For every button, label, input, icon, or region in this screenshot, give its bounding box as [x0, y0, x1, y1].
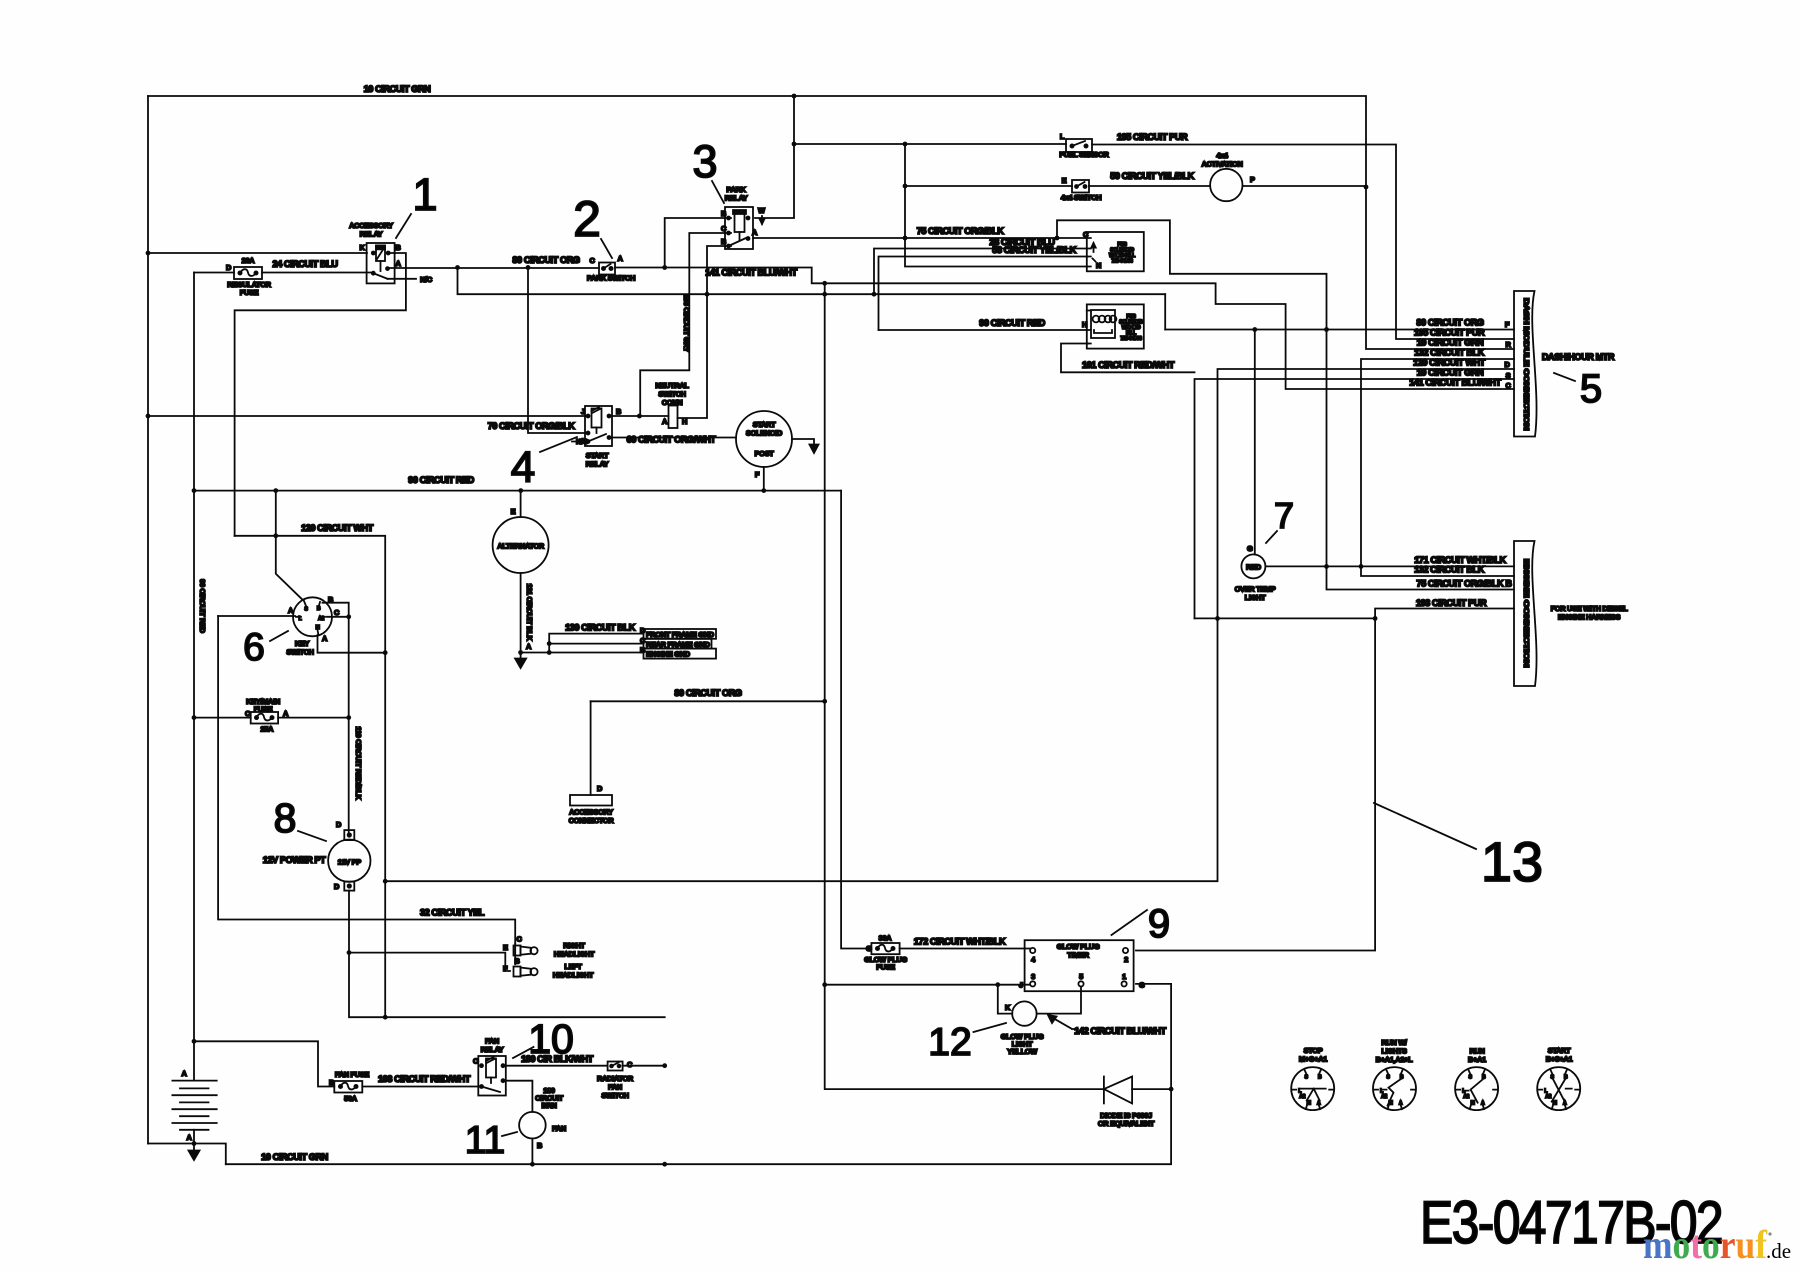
svg-text:60 CIRCUIT ORG/WHT: 60 CIRCUIT ORG/WHT	[627, 435, 717, 445]
wire 90 CIRCUIT RED into fuel solenoid 2	[879, 329, 1088, 331]
svg-text:N/C: N/C	[576, 437, 589, 446]
svg-text:11: 11	[465, 1119, 506, 1162]
fuel solenoid 2 box	[1087, 304, 1144, 348]
svg-text:S: S	[1305, 1075, 1309, 1081]
wire 132 CIRCUIT BLK dash to engine link	[1361, 359, 1514, 576]
svg-text:L: L	[299, 616, 302, 622]
ground boxes FRONT/REAR/ENGINE	[644, 629, 717, 659]
battery symbol	[172, 1081, 216, 1130]
left headlight bulb	[514, 967, 538, 977]
fuel solenoid 1 tiny text	[1083, 230, 1135, 270]
svg-text:A: A	[181, 1069, 187, 1078]
svg-text:80 CIRCUIT ORG: 80 CIRCUIT ORG	[1416, 318, 1484, 328]
key position RUN W/LIGHTS circle	[1373, 1067, 1416, 1110]
labels regulator fuse	[227, 256, 271, 297]
svg-text:132 CIRCUIT BLK: 132 CIRCUIT BLK	[1414, 565, 1485, 575]
svg-text:131 CIRCUIT BLK: 131 CIRCUIT BLK	[525, 583, 534, 641]
svg-text:ENGINE CONNECTION: ENGINE CONNECTION	[1522, 559, 1531, 667]
junction 75 row at x905 and x1057	[903, 236, 1060, 241]
svg-text:90 CIRCUIT RED: 90 CIRCUIT RED	[198, 579, 207, 634]
labels radiator fan switch	[597, 1060, 634, 1100]
junction 294 row	[455, 265, 876, 297]
wire diode row	[825, 985, 1171, 1089]
svg-text:N: N	[1096, 261, 1101, 270]
junction 4x4 row at x905	[903, 184, 908, 189]
labels glow plug timer	[1019, 942, 1145, 990]
labels accessory connector	[569, 784, 615, 825]
labels over temp light	[1235, 544, 1276, 602]
wire 70 CIRCUIT ORG/BLK	[528, 268, 585, 434]
svg-text:C: C	[589, 256, 595, 265]
key position STOP circle	[1291, 1067, 1334, 1110]
svg-text:D: D	[334, 882, 340, 891]
junction 141 net	[662, 265, 827, 286]
over temp light circle	[1241, 554, 1265, 578]
svg-text:B+A1: B+A1	[1468, 1055, 1486, 1064]
wire park relay B top to 80 ORG row	[665, 218, 731, 268]
svg-text:80 CIRCUIT ORG: 80 CIRCUIT ORG	[674, 688, 742, 698]
svg-text:132 CIRCUIT BLK: 132 CIRCUIT BLK	[1414, 348, 1485, 358]
svg-text:ALTERNATOR: ALTERNATOR	[497, 542, 545, 551]
label N/C accessory	[420, 275, 433, 284]
labels ground boxes	[640, 626, 715, 659]
wire 4x4 activation P to 10GRN vertical	[1243, 185, 1367, 187]
label dash module connection	[1522, 298, 1531, 430]
wire key switch L row	[218, 615, 295, 617]
wire 195 CIRCUIT PUR fuel sensor row	[794, 144, 1514, 339]
svg-text:B: B	[395, 243, 400, 252]
svg-text:725-04903: 725-04903	[1120, 336, 1142, 342]
numeral 11 callout	[465, 1119, 517, 1162]
junction top bus at park relay W drop	[792, 94, 797, 99]
svg-text:141 CIRCUIT BLU/WHT: 141 CIRCUIT BLU/WHT	[705, 268, 797, 278]
svg-text:SWITCH: SWITCH	[601, 1091, 628, 1100]
svg-text:C: C	[721, 224, 727, 233]
wire 10 CIRCUIT GRN bottom	[226, 1163, 1171, 1165]
numeral 13 callout	[1374, 803, 1543, 893]
12V power point	[328, 830, 370, 891]
svg-text:P: P	[1250, 175, 1255, 184]
label 75 CIRCUIT ORG/BLK B engine	[1416, 579, 1512, 589]
right headlight bulb	[514, 946, 538, 956]
svg-text:G: G	[866, 944, 872, 953]
wire key switch S feed	[276, 491, 303, 600]
wire 80 CIRCUIT ORG dash F row	[1165, 329, 1514, 331]
svg-text:725-04903: 725-04903	[1111, 259, 1133, 265]
svg-text:ENGINE GND: ENGINE GND	[646, 650, 691, 659]
label engine connection	[1522, 559, 1531, 667]
numeral 7 callout	[1266, 495, 1294, 543]
svg-text:171 CIRCUIT WHT/BLK: 171 CIRCUIT WHT/BLK	[1414, 555, 1506, 565]
wire regulator fuse left bus x194	[193, 273, 195, 1081]
drawing number E3-04717B-02	[1420, 1189, 1722, 1256]
svg-text:12V POWER PT: 12V POWER PT	[263, 855, 326, 865]
svg-text:4x4 SWITCH: 4x4 SWITCH	[1061, 193, 1102, 202]
fuel solenoid 2 tiny text	[1082, 314, 1144, 342]
labels battery pins	[181, 1069, 192, 1142]
svg-text:141 CIRCUIT BLU/WHT: 141 CIRCUIT BLU/WHT	[1409, 378, 1501, 388]
numeral 12 callout	[928, 1021, 1006, 1064]
wire accessory connector drop	[590, 701, 592, 795]
labels glow plug fuse	[864, 934, 907, 972]
label 132 CIRCUIT BLK engine	[1414, 565, 1485, 575]
svg-text:.de: .de	[1766, 1239, 1791, 1263]
glow plug fuse symbol	[871, 943, 899, 954]
wire 10 CIRCUIT GRN top bus	[148, 96, 1514, 349]
svg-text:1: 1	[412, 169, 437, 220]
svg-text:G: G	[1247, 544, 1253, 553]
wire 75 CIRCUIT ORG/BLK row	[753, 237, 1087, 239]
key/main fuse symbol	[251, 712, 278, 724]
svg-text:9: 9	[1148, 902, 1170, 946]
wire alternator E pin	[520, 491, 522, 517]
svg-text:12V PP: 12V PP	[338, 858, 362, 867]
svg-text:B: B	[721, 237, 726, 246]
svg-text:70 CIRCUIT ORG/BLK: 70 CIRCUIT ORG/BLK	[488, 421, 576, 431]
wire over temp light G to F row	[1254, 330, 1256, 555]
svg-text:75 CIRCUIT ORG/BLK B: 75 CIRCUIT ORG/BLK B	[1416, 579, 1512, 589]
svg-text:193 CIRCUIT PUR: 193 CIRCUIT PUR	[1416, 598, 1487, 608]
labels key switch name	[286, 639, 313, 657]
svg-text:FRONT FRAME GND: FRONT FRAME GND	[646, 630, 715, 639]
label 90 CIRCUIT RED	[408, 475, 474, 485]
svg-text:H: H	[1082, 320, 1087, 329]
svg-text:101 CIRCUIT RED/WHT: 101 CIRCUIT RED/WHT	[1082, 360, 1175, 370]
junction 110 net at key fuse	[346, 715, 351, 720]
svg-text:4: 4	[1031, 955, 1036, 964]
wire key main fuse row	[194, 717, 349, 719]
svg-text:A: A	[1399, 1101, 1403, 1107]
svg-text:FAN FUSE: FAN FUSE	[335, 1070, 370, 1079]
wire start relay N/C stub	[572, 441, 588, 443]
labels 12V power point	[263, 820, 362, 891]
svg-text:110 CIRCUIT RED/BLK: 110 CIRCUIT RED/BLK	[354, 726, 363, 800]
wire 108 CIRCUIT RED/WHT	[362, 1086, 481, 1088]
label 4x4 SWITCH and pin E	[1061, 176, 1102, 202]
wire accessory relay B to 120 WHT net	[235, 253, 406, 536]
junction x707 at y294	[705, 292, 710, 297]
svg-text:E: E	[511, 507, 516, 516]
svg-text:S: S	[1506, 371, 1511, 380]
svg-text:B: B	[1318, 1075, 1322, 1081]
park switch symbol	[599, 263, 615, 275]
svg-text:108 CIRCUIT RED/WHT: 108 CIRCUIT RED/WHT	[378, 1074, 471, 1084]
svg-text:2: 2	[1124, 955, 1128, 964]
142 callout arrow	[1048, 1015, 1078, 1029]
numeral 10 callout	[513, 1016, 574, 1062]
label A alternator gnd	[526, 642, 532, 651]
wire 155 CIRCUIT GRY park relay C down	[640, 233, 731, 416]
glow plug light circle	[1012, 1001, 1036, 1025]
labels park relay	[721, 185, 765, 246]
wire accessory relay N/C stub	[388, 278, 417, 280]
junction 10 GRN / 4x4 P wire	[1364, 185, 1369, 190]
wire key switch B C to 110 node	[323, 603, 349, 617]
labels key RUN	[1468, 1047, 1486, 1065]
junction 12V PP gnd net	[347, 950, 388, 1019]
svg-text:180 CIR BLK/WHT: 180 CIR BLK/WHT	[521, 1054, 594, 1064]
svg-text:POST: POST	[755, 449, 775, 458]
label 130 CIRCUIT BLK	[565, 623, 636, 633]
labels key START	[1546, 1046, 1573, 1064]
labels headlights	[503, 935, 595, 980]
wire headlight feed bracket	[349, 944, 515, 971]
svg-text:B+A1,A2+L: B+A1,A2+L	[1376, 1055, 1414, 1064]
junction fuel sensor row at x905	[792, 142, 908, 147]
start solenoid output arrow	[792, 439, 819, 453]
label DASH/HOUR MTR	[1542, 352, 1615, 362]
alternator circle	[493, 517, 549, 573]
junction key switch node	[346, 614, 351, 619]
svg-text:58 CIRCUIT YEL/BLK: 58 CIRCUIT YEL/BLK	[992, 245, 1076, 255]
junction 75 link at F row	[1324, 327, 1329, 332]
svg-text:R: R	[1505, 340, 1511, 349]
park relay W arrow	[760, 216, 765, 224]
svg-text:B: B	[640, 646, 645, 655]
label 10 CIRCUIT GRN bottom	[261, 1152, 329, 1162]
svg-text:25A: 25A	[260, 725, 274, 734]
svg-text:M: M	[1471, 1101, 1475, 1107]
svg-text:HEADLIGHT: HEADLIGHT	[554, 950, 595, 959]
labels neutral switch conn	[655, 381, 689, 426]
label 90 CIRCUIT RED vertical	[198, 579, 207, 634]
svg-text:M: M	[1553, 1101, 1557, 1107]
svg-text:10 CIRCUIT GRN: 10 CIRCUIT GRN	[1417, 368, 1485, 378]
fan fuse symbol	[334, 1081, 362, 1093]
svg-text:YELLOW: YELLOW	[1007, 1047, 1037, 1056]
wire 50 CIRCUIT YEL/BLK 4x4 switch row	[905, 185, 1210, 187]
svg-text:LIGHT: LIGHT	[1245, 593, 1266, 602]
labels park switch	[587, 254, 635, 283]
svg-text:TIMER: TIMER	[1067, 951, 1089, 960]
svg-text:90 CIRCUIT RED: 90 CIRCUIT RED	[408, 475, 474, 485]
svg-text:10 CIRCUIT GRN: 10 CIRCUIT GRN	[364, 84, 432, 94]
svg-text:13: 13	[1481, 830, 1543, 893]
wire 141 CIRCUIT BLU/WHT net	[615, 268, 1514, 390]
svg-text:50A: 50A	[344, 1094, 358, 1103]
svg-text:FUSE: FUSE	[876, 963, 895, 972]
label 141 CIRCUIT BLU/WHT	[705, 268, 797, 278]
label 108 CIRCUIT RED/WHT	[378, 1074, 471, 1084]
wire accessory relay K feed	[148, 252, 367, 254]
svg-text:CONNECTOR: CONNECTOR	[569, 816, 615, 825]
fan relay box	[478, 1056, 506, 1096]
label 60 CIRCUIT ORG/WHT	[627, 435, 717, 445]
wire glow timer J row	[825, 984, 1030, 986]
label 80 CIRCUIT ORG left	[512, 255, 580, 265]
label 50 CIRCUIT YEL/BLK	[1110, 171, 1194, 181]
svg-text:D: D	[226, 263, 232, 272]
svg-text:8: 8	[274, 795, 297, 841]
label 131 CIRCUIT BLK vertical	[525, 583, 534, 641]
diode symbol	[1104, 1077, 1132, 1104]
key position START circle	[1537, 1067, 1580, 1110]
wire 193 CIRCUIT PUR row	[1195, 609, 1515, 619]
labels fan fuse	[329, 1070, 369, 1103]
junction 80 ORG mid	[822, 699, 827, 704]
svg-text:D: D	[597, 784, 603, 793]
svg-text:B: B	[616, 407, 621, 416]
svg-text:2: 2	[573, 191, 601, 247]
wire fan relay to fan	[506, 1081, 533, 1112]
wire 58 CIRCUIT YEL/BLK row	[879, 257, 1088, 331]
wire 60 CIRCUIT ORG/WHT	[612, 437, 736, 439]
wire 12V PP top feed	[348, 830, 350, 833]
label 28 CIRCUIT BLU	[989, 237, 1055, 247]
ground arrow battery	[189, 1144, 200, 1161]
numeral 3 callout	[692, 136, 724, 203]
svg-text:S: S	[1469, 1075, 1473, 1081]
svg-text:SWITCH: SWITCH	[286, 648, 313, 657]
svg-text:REAR FRAME GND: REAR FRAME GND	[646, 640, 711, 649]
wire 101 CIRCUIT RED/WHT	[1061, 344, 1195, 373]
wire 110 CIRCUIT RED/BLK	[348, 617, 350, 830]
label 10 CIRCUIT GRN top	[364, 84, 432, 94]
svg-text:120 CIRCUIT WHT: 120 CIRCUIT WHT	[1413, 358, 1486, 368]
wire key switch M to 120 net	[318, 635, 386, 653]
regulator fuse symbol	[234, 267, 262, 279]
svg-text:1: 1	[1122, 972, 1126, 981]
wire 142 CIRCUIT BLU/WHT	[1037, 987, 1081, 1014]
labels fan	[537, 1124, 566, 1150]
label 120 CIRCUIT WHT	[301, 523, 374, 533]
neutral switch connector	[669, 406, 678, 429]
label 172 CIRCUIT WHT/BLK	[914, 937, 1006, 947]
svg-text:FUSE: FUSE	[254, 705, 273, 714]
svg-text:90 CIRCUIT RED: 90 CIRCUIT RED	[979, 318, 1045, 328]
svg-text:CONN: CONN	[662, 398, 683, 407]
label 101 CIRCUIT RED/WHT	[1082, 360, 1175, 370]
numeral 4 callout	[511, 437, 577, 492]
svg-text:B: B	[329, 1078, 334, 1087]
junction 90 RED row	[273, 488, 766, 493]
wire battery neg to 10 GRN bottom	[148, 1144, 226, 1165]
svg-text:A: A	[395, 259, 401, 268]
labels accessory relay	[349, 221, 401, 268]
numeral 1 callout	[396, 169, 438, 238]
wire 32 CIRCUIT YEL	[218, 616, 515, 944]
svg-text:L: L	[1060, 132, 1065, 141]
start solenoid post circle	[736, 411, 792, 467]
junction x194 bus	[192, 488, 197, 1044]
wire glow timer pin2 to 193 net	[1136, 618, 1375, 950]
wire glow plug light K drop	[998, 985, 1012, 1014]
svg-text:4: 4	[511, 443, 535, 492]
svg-text:A: A	[662, 417, 668, 426]
svg-text:C: C	[334, 608, 340, 617]
label 171 CIRCUIT WHT/BLK	[1414, 555, 1506, 565]
label 80 CIRCUIT ORG mid	[674, 688, 742, 698]
wire 294 row	[458, 268, 1166, 295]
svg-text:PARK SWITCH: PARK SWITCH	[587, 274, 635, 283]
svg-text:172 CIRCUIT WHT/BLK: 172 CIRCUIT WHT/BLK	[914, 937, 1006, 947]
svg-text:195 CIRCUIT PUR: 195 CIRCUIT PUR	[1117, 132, 1188, 142]
numeral 6 callout	[243, 626, 288, 669]
wire fan B to ground	[531, 1139, 533, 1165]
svg-text:3: 3	[1031, 972, 1035, 981]
svg-text:H: H	[682, 417, 687, 426]
wire 10 CIRCUIT GRN dash S row	[1195, 379, 1515, 618]
label 70 CIRCUIT ORG/BLK	[488, 421, 576, 431]
wire battery to fan fuse	[194, 1041, 334, 1086]
svg-text:D: D	[336, 820, 342, 829]
svg-text:A: A	[617, 254, 623, 263]
wire 120 CIRCUIT WHT dash D row	[385, 369, 1514, 881]
labels diode	[1098, 1111, 1155, 1128]
numeral 2 callout	[573, 191, 612, 258]
svg-text:A: A	[1481, 1101, 1485, 1107]
engine connection connector shape	[1514, 541, 1537, 686]
svg-text:A2: A2	[1545, 1094, 1551, 1100]
svg-text:ENGINE HARNESS: ENGINE HARNESS	[1558, 613, 1621, 622]
svg-text:B+S+A1: B+S+A1	[1546, 1055, 1573, 1064]
label 32 CIRCUIT YEL	[420, 908, 485, 918]
svg-text:120 CIRCUIT WHT: 120 CIRCUIT WHT	[301, 523, 374, 533]
svg-text:B: B	[537, 1141, 542, 1150]
label 193 CIRCUIT PUR	[1416, 598, 1487, 608]
junction 171 row	[1324, 564, 1363, 569]
label FUEL SENSOR and pin L	[1059, 132, 1109, 159]
svg-text:FUEL SENSOR: FUEL SENSOR	[1059, 150, 1109, 159]
svg-text:50 CIRCUIT YEL/BLK: 50 CIRCUIT YEL/BLK	[1110, 171, 1194, 181]
wire battery bottom to ground	[193, 1130, 195, 1144]
radiator fan switch symbol	[608, 1062, 623, 1071]
svg-text:OR EQUIVALENT: OR EQUIVALENT	[1098, 1119, 1155, 1128]
junction start relay B branch	[637, 414, 642, 419]
svg-text:W: W	[758, 206, 765, 215]
dash connector pin letters	[1504, 320, 1511, 390]
junction left bus J feed	[146, 414, 151, 419]
4x4 activation circle	[1210, 169, 1242, 201]
svg-text:A: A	[752, 228, 758, 237]
wire 171 CIRCUIT WHT/BLK row	[1266, 565, 1514, 567]
fuel solenoid 1 box	[1087, 232, 1144, 271]
wire park relay W pin to top bus	[755, 96, 794, 218]
svg-text:130 CIRCUIT BLK: 130 CIRCUIT BLK	[565, 623, 636, 633]
svg-text:30A: 30A	[879, 934, 893, 943]
wire 172 CIRCUIT WHT/BLK	[900, 948, 1030, 950]
svg-text:motoruf: motoruf	[1643, 1222, 1768, 1267]
svg-text:3: 3	[692, 136, 717, 187]
svg-text:A: A	[526, 642, 532, 651]
svg-text:A2: A2	[318, 616, 324, 622]
4x4 switch symbol	[1072, 180, 1089, 193]
wire 120 CIRCUIT WHT row	[235, 536, 386, 1017]
svg-text:B: B	[317, 606, 321, 612]
label 58 CIRCUIT YEL/BLK	[992, 245, 1076, 255]
label 24 CIRCUIT BLU and pin D	[226, 259, 338, 272]
label 195 CIRCUIT PUR	[1117, 132, 1188, 142]
svg-text:RELAY: RELAY	[481, 1045, 504, 1054]
svg-text:FAN: FAN	[552, 1124, 566, 1133]
svg-text:6: 6	[243, 626, 265, 669]
svg-text:10 CIRCUIT GRN: 10 CIRCUIT GRN	[1417, 338, 1485, 348]
junction timer J row	[822, 982, 1000, 987]
label for use with diesel	[1551, 604, 1629, 622]
svg-text:A: A	[186, 1133, 192, 1142]
wire 80 CIRCUIT ORG accessory to park switch	[388, 267, 600, 269]
fuel sensor switch symbol	[1066, 139, 1092, 152]
svg-text:20A: 20A	[242, 256, 256, 265]
wire park relay B low to neutral switch H	[678, 246, 732, 418]
svg-text:M: M	[1307, 1101, 1311, 1107]
svg-text:10 CIRCUIT GRN: 10 CIRCUIT GRN	[261, 1152, 329, 1162]
svg-text:B: B	[514, 957, 519, 966]
wire 131 CIRCUIT BLK alternator ground	[520, 573, 522, 653]
svg-text:F: F	[755, 470, 760, 479]
svg-text:RELAY: RELAY	[360, 230, 383, 239]
svg-text:80 CIRCUIT ORG: 80 CIRCUIT ORG	[512, 255, 580, 265]
